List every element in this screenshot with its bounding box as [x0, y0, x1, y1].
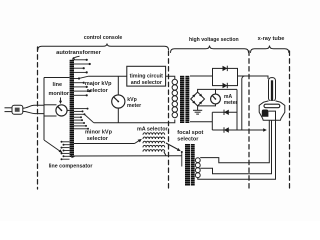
- svg-text:line compensator: line compensator: [49, 163, 93, 169]
- arrow line monitor label pointer: [59, 98, 62, 105]
- wire diamond top to mA meter: [198, 89, 216, 94]
- HV transformer core: [180, 76, 184, 124]
- wire minor kVp selector arm: [85, 115, 94, 123]
- svg-text:x-ray tube: x-ray tube: [258, 36, 285, 42]
- wire plug to line monitor (top): [23, 105, 44, 108]
- wire line monitor fork top: [44, 104, 57, 106]
- svg-text:meter: meter: [224, 100, 238, 106]
- wire secondary bottom to rectifier box bottom: [190, 121, 212, 123]
- svg-text:kVp: kVp: [127, 97, 137, 103]
- svg-text:meter: meter: [127, 103, 141, 109]
- wire rectifier output to tube anode: [238, 76, 269, 79]
- timing circuit box: [127, 66, 166, 86]
- minor kVp selector taps: [74, 108, 89, 130]
- filament transformer primary: [185, 144, 190, 186]
- svg-text:and selector: and selector: [131, 80, 162, 86]
- wire filament lead A: [200, 117, 269, 163]
- rectifier box top: [213, 68, 238, 85]
- wire top feed to autotransformer: [44, 77, 70, 79]
- arrow focal spot selector wire: [166, 143, 181, 151]
- wire kVp meter to lower bus: [117, 108, 119, 123]
- mA selector coil: [143, 133, 165, 152]
- svg-text:mA selector: mA selector: [137, 126, 169, 132]
- wire autotransformer bottom tail: [71, 156, 74, 158]
- diode bottom pair (left pointing): [224, 110, 229, 133]
- svg-text:control console: control console: [84, 35, 123, 41]
- wire filament lead B: [200, 117, 271, 174]
- anode stem: [271, 80, 273, 103]
- wire secondary top to rectifier box: [190, 75, 213, 77]
- line monitor meter: [56, 105, 67, 116]
- arrow mA selector pointer: [135, 139, 142, 144]
- dashed border console/high-voltage boundary: [168, 51, 170, 189]
- wire timing circuit to HV primary: [166, 76, 175, 79]
- major kVp selector taps: [74, 59, 91, 97]
- svg-text:major kVp: major kVp: [85, 81, 112, 87]
- x-ray tube: [259, 78, 285, 121]
- wire focal spot rail: [181, 151, 183, 167]
- wire major kVp selector arm: [80, 76, 89, 78]
- arrow autotransformer pointer: [72, 56, 80, 60]
- wire mA meter top to HV bus: [216, 88, 238, 90]
- svg-text:line: line: [53, 82, 62, 88]
- HV transformer primary coil: [172, 79, 177, 117]
- cathode side arm wire: [268, 111, 275, 120]
- tube neck: [269, 78, 276, 101]
- cathode block: [262, 110, 269, 117]
- power plug: [5, 105, 23, 114]
- brace high voltage section: [171, 46, 249, 53]
- wire line monitor fork bottom: [44, 115, 57, 117]
- brace control console: [38, 44, 169, 50]
- wire plug to line monitor (bottom): [23, 111, 44, 113]
- svg-text:selector: selector: [87, 136, 109, 142]
- wire autotransformer to mA selector: [74, 143, 135, 145]
- kVp meter: [112, 95, 125, 108]
- svg-text:high voltage section: high voltage section: [189, 37, 239, 43]
- autotransformer winding: [70, 60, 74, 158]
- anode target: [264, 104, 280, 108]
- ground: [193, 106, 202, 114]
- wire filament lead C: [198, 120, 276, 180]
- wire cathode supply with arrow: [237, 128, 267, 131]
- svg-text:timing circuit: timing circuit: [130, 73, 163, 79]
- filament transformer secondary coil: [195, 158, 200, 178]
- wire coil tap to lower filament wire: [164, 152, 166, 156]
- line compensator taps: [61, 141, 70, 160]
- dashed border control console left: [37, 47, 39, 189]
- HV transformer secondary: [185, 76, 189, 124]
- svg-text:focal spot: focal spot: [177, 130, 203, 136]
- dashed border x-ray tube right: [289, 51, 291, 189]
- mA meter: [211, 94, 221, 104]
- wire hv vertical drop: [242, 76, 245, 130]
- wire mA meter bottom return: [198, 104, 216, 106]
- svg-text:monitor: monitor: [49, 91, 70, 97]
- wire to timing circuit: [89, 75, 127, 77]
- wire line monitor vertical bus: [43, 78, 45, 141]
- filament transformer core: [191, 144, 195, 186]
- svg-text:autotransformer: autotransformer: [56, 50, 102, 56]
- svg-text:selector: selector: [87, 88, 109, 94]
- tube body: [259, 101, 285, 120]
- rectifier box bottom: [212, 90, 237, 131]
- brace x-ray tube: [251, 46, 289, 53]
- wire kVp meter drop: [117, 76, 119, 95]
- svg-text:selector: selector: [177, 136, 199, 142]
- arrow line compensator selector: [44, 140, 63, 153]
- wire lower bus to HV primary: [94, 120, 175, 123]
- diode top-left pair (right pointing): [223, 66, 228, 89]
- dashed border high-voltage/x-ray-tube boundary: [248, 51, 250, 189]
- wire autotransformer to filament primary: [74, 155, 182, 157]
- wire meter to autotransformer: [67, 109, 69, 111]
- svg-text:minor kVp: minor kVp: [85, 129, 113, 135]
- rectifier bridge diamond: [191, 92, 205, 106]
